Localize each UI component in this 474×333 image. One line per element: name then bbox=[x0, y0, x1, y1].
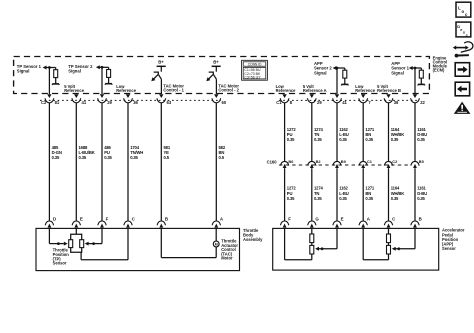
svg-text:41: 41 bbox=[342, 100, 347, 105]
svg-text:0.35: 0.35 bbox=[339, 196, 347, 201]
wire TP1 internal horizontal bbox=[46, 67, 56, 69]
connector pin C2-36 bbox=[124, 94, 139, 105]
wire circuit 1161 lower bbox=[414, 168, 416, 221]
wire APP1 internal horizontal bbox=[412, 67, 421, 69]
TP Sensor 2 signal arrow bbox=[96, 65, 100, 69]
TP Sensor potentiometer bbox=[69, 234, 84, 252]
junction APP 1 wiper bbox=[321, 247, 324, 250]
svg-text:Assembly: Assembly bbox=[243, 237, 263, 242]
connector pin TP F bbox=[98, 216, 109, 227]
resistor ECM internal APP1 bbox=[420, 68, 422, 70]
icon DESC box bbox=[456, 22, 471, 37]
connector C160 dashed line bbox=[279, 164, 411, 166]
APP potentiometer 2 bbox=[387, 228, 391, 259]
TAC motor M1 bbox=[213, 241, 219, 247]
wire circuit 486 bbox=[101, 103, 103, 221]
connector pin TP A bbox=[212, 216, 224, 227]
svg-text:B5: B5 bbox=[419, 159, 425, 164]
wire TP pin D to pot wiper-left bbox=[49, 228, 63, 243]
svg-text:0.35: 0.35 bbox=[314, 196, 322, 201]
arrow into right pot element bbox=[85, 242, 89, 246]
svg-text:0.35: 0.35 bbox=[391, 196, 399, 201]
svg-text:0.35: 0.35 bbox=[130, 155, 138, 160]
svg-text:Reference B: Reference B bbox=[377, 88, 401, 93]
svg-text:M: M bbox=[215, 243, 218, 247]
wire APP 1 bottom leg bbox=[285, 228, 312, 259]
connector pin TP E bbox=[72, 216, 83, 227]
wire TP2 internal horizontal bbox=[99, 66, 109, 68]
wire TP pin F to pot wiper-right bbox=[89, 228, 103, 243]
svg-text:B+: B+ bbox=[158, 59, 164, 64]
connector pin C2-81 bbox=[45, 94, 60, 105]
B+ terminal and TAC driver switch 2 bbox=[206, 59, 220, 94]
wire motor to loop bbox=[215, 247, 217, 258]
APP Sensor 2 signal arrow bbox=[333, 66, 337, 70]
connector pin C1-41 bbox=[333, 94, 348, 105]
svg-text:B: B bbox=[165, 216, 168, 221]
connector pin C2-60 bbox=[212, 94, 227, 105]
icon harness connector arrow bbox=[453, 42, 473, 58]
svg-text:0.5: 0.5 bbox=[164, 155, 170, 160]
connector pin C1-7 bbox=[359, 94, 372, 105]
wire circuit 1271 upper bbox=[362, 103, 364, 161]
wire TP pin B to motor loop bbox=[161, 228, 216, 257]
svg-text:Signal: Signal bbox=[391, 70, 404, 75]
wire circuit 1162 upper bbox=[336, 103, 338, 161]
svg-text:Motor: Motor bbox=[221, 256, 233, 261]
svg-text:B2: B2 bbox=[316, 159, 322, 164]
wire APP 1 wiper leg bbox=[319, 228, 337, 248]
wire circuit 581 bbox=[160, 103, 162, 221]
svg-text:0.35: 0.35 bbox=[365, 137, 373, 142]
connector pin C1-29 bbox=[307, 94, 322, 105]
svg-text:Signal: Signal bbox=[314, 70, 327, 75]
svg-text:E: E bbox=[80, 216, 83, 221]
svg-text:C1: C1 bbox=[367, 159, 373, 164]
svg-text:Signal: Signal bbox=[17, 69, 30, 74]
connector pin APP G bbox=[308, 216, 320, 227]
CONN ID table bbox=[242, 60, 268, 80]
ECM dashed outline box bbox=[14, 57, 430, 94]
svg-text:Reference: Reference bbox=[116, 88, 137, 93]
Accelerator Pedal Position Sensor box bbox=[273, 228, 439, 270]
svg-text:0.35: 0.35 bbox=[79, 155, 87, 160]
connector pin TP D bbox=[45, 216, 56, 227]
connector pin C1-36 bbox=[384, 94, 399, 105]
connector C160 pin B5 bbox=[411, 159, 425, 168]
wire circuit 1164 lower bbox=[388, 168, 390, 221]
wire TP2 signal vertical bbox=[101, 67, 103, 94]
svg-text:36: 36 bbox=[133, 100, 138, 105]
junction TP1 bbox=[48, 66, 51, 69]
wire circuit 485 bbox=[48, 103, 50, 221]
svg-text:60: 60 bbox=[222, 100, 227, 105]
svg-text:41: 41 bbox=[82, 100, 87, 105]
svg-text:B: B bbox=[419, 216, 422, 221]
wire circuit 582 bbox=[215, 103, 217, 221]
svg-text:E: E bbox=[341, 216, 344, 221]
arrow into left pot element bbox=[64, 242, 68, 246]
APP Sensor 1 signal arrow bbox=[409, 66, 413, 70]
svg-text:0.35: 0.35 bbox=[287, 137, 295, 142]
svg-text:Control - 1: Control - 1 bbox=[163, 87, 184, 92]
wire APP1 signal vertical bbox=[414, 68, 416, 94]
connector row dotted line C2 bbox=[40, 99, 221, 101]
svg-text:36: 36 bbox=[394, 100, 399, 105]
wire TP pin A to motor bbox=[215, 228, 217, 241]
junction APP1 bbox=[414, 67, 417, 70]
connector pin APP B bbox=[411, 216, 422, 227]
connector row dotted line C1 bbox=[279, 99, 420, 101]
connector C160 pin C2 bbox=[384, 159, 398, 168]
resistor ECM internal TP1 bbox=[55, 68, 57, 70]
svg-text:0.5: 0.5 bbox=[219, 155, 225, 160]
svg-text:B+: B+ bbox=[213, 59, 219, 64]
junction F branch bbox=[92, 242, 95, 245]
svg-text:22: 22 bbox=[420, 100, 425, 105]
junction APP2 bbox=[336, 67, 339, 70]
svg-text:Signal: Signal bbox=[68, 69, 81, 74]
junction TP2 bbox=[101, 66, 104, 69]
wire circuit 1164 upper bbox=[388, 103, 390, 161]
junction APP 2 wiper bbox=[397, 247, 400, 250]
wire circuit 1272 upper bbox=[284, 103, 286, 161]
svg-text:Reference: Reference bbox=[355, 88, 376, 93]
svg-text:F: F bbox=[288, 216, 291, 221]
wire APP 2 wiper leg bbox=[396, 228, 416, 248]
svg-text:0.35: 0.35 bbox=[104, 155, 112, 160]
wire circuit 1688 bbox=[75, 103, 77, 221]
svg-text:Reference A: Reference A bbox=[303, 88, 327, 93]
wire TP pin E to pot top bbox=[75, 228, 77, 234]
svg-text:G: G bbox=[315, 216, 319, 221]
wire TP1 signal vertical bbox=[48, 68, 50, 95]
svg-text:0.35: 0.35 bbox=[417, 196, 425, 201]
svg-text:C160: C160 bbox=[267, 159, 278, 164]
svg-text:D: D bbox=[53, 216, 56, 221]
junction D branch bbox=[57, 242, 60, 245]
resistor ECM internal APP2 bbox=[344, 68, 346, 70]
TP Sensor 1 signal arrow bbox=[43, 66, 47, 70]
svg-text:F: F bbox=[106, 216, 109, 221]
arrow APP 2 wiper bbox=[392, 247, 396, 251]
connector pin C2-29 bbox=[98, 94, 113, 105]
connector pin C1-22 bbox=[411, 94, 426, 105]
wire circuit 1272 lower bbox=[284, 168, 286, 221]
connector pin TP C bbox=[124, 216, 136, 227]
wire circuit 1271 lower bbox=[362, 168, 364, 221]
svg-text:Sensor: Sensor bbox=[442, 246, 456, 251]
svg-text:B6: B6 bbox=[288, 159, 294, 164]
wire circuit 1704 bbox=[127, 103, 129, 221]
connector C160 pin B6 bbox=[280, 159, 294, 168]
svg-text:CONN ID: CONN ID bbox=[248, 62, 262, 66]
wire TP pot bottom to pin C bbox=[81, 228, 128, 259]
icon forward arrow bbox=[455, 63, 469, 76]
connector pin TP B bbox=[157, 216, 168, 227]
connector pin APP E bbox=[333, 216, 344, 227]
svg-text:C3=56 GY: C3=56 GY bbox=[244, 76, 261, 80]
wire APP 2 bottom leg bbox=[363, 228, 388, 259]
arrow APP 1 wiper bbox=[315, 247, 319, 251]
resistor ECM internal TP2 bbox=[108, 67, 110, 69]
connector pin APP C bbox=[384, 216, 396, 227]
svg-text:0.35: 0.35 bbox=[287, 196, 295, 201]
svg-text:29: 29 bbox=[107, 100, 112, 105]
APP potentiometer 1 bbox=[310, 228, 314, 259]
icon caution triangle bbox=[454, 102, 471, 114]
svg-text:29: 29 bbox=[317, 100, 322, 105]
wire APP2 signal vertical bbox=[336, 68, 338, 94]
connector C160 pin B2 bbox=[308, 159, 322, 168]
Throttle Body Assembly box bbox=[36, 228, 240, 270]
connector pin C2-41 bbox=[72, 94, 87, 105]
svg-text:C2: C2 bbox=[392, 159, 398, 164]
icon LOC box bbox=[456, 2, 471, 17]
connector pin APP A bbox=[359, 216, 371, 227]
svg-text:63: 63 bbox=[167, 100, 172, 105]
connector pin C1-8 bbox=[280, 94, 293, 105]
svg-text:0.35: 0.35 bbox=[391, 137, 399, 142]
wire circuit 1162 lower bbox=[336, 168, 338, 221]
svg-text:0.35: 0.35 bbox=[417, 137, 425, 142]
connector pin C2-63 bbox=[157, 94, 172, 105]
svg-text:81: 81 bbox=[55, 100, 60, 105]
wire circuit 1161 upper bbox=[414, 103, 416, 161]
svg-text:Control - 2: Control - 2 bbox=[218, 87, 239, 92]
svg-text:0.35: 0.35 bbox=[314, 137, 322, 142]
wire APP2 internal horizontal bbox=[336, 67, 345, 69]
svg-text:Reference: Reference bbox=[276, 88, 297, 93]
svg-text:0.35: 0.35 bbox=[52, 155, 60, 160]
svg-text:0.35: 0.35 bbox=[339, 137, 347, 142]
connector C160 pin C1 bbox=[359, 159, 373, 168]
svg-text:Sensor: Sensor bbox=[53, 261, 67, 266]
svg-text:(ECM): (ECM) bbox=[433, 67, 445, 72]
svg-text:Reference: Reference bbox=[64, 88, 85, 93]
icon back arrow bbox=[455, 82, 469, 96]
svg-text:0.35: 0.35 bbox=[365, 196, 373, 201]
svg-text:B9: B9 bbox=[341, 159, 347, 164]
wire circuit 1274 upper bbox=[311, 103, 313, 161]
connector C160 pin B9 bbox=[333, 159, 347, 168]
connector pin APP F bbox=[280, 216, 291, 227]
wire circuit 1274 lower bbox=[311, 168, 313, 221]
B+ terminal and TAC driver switch 1 bbox=[151, 59, 165, 94]
